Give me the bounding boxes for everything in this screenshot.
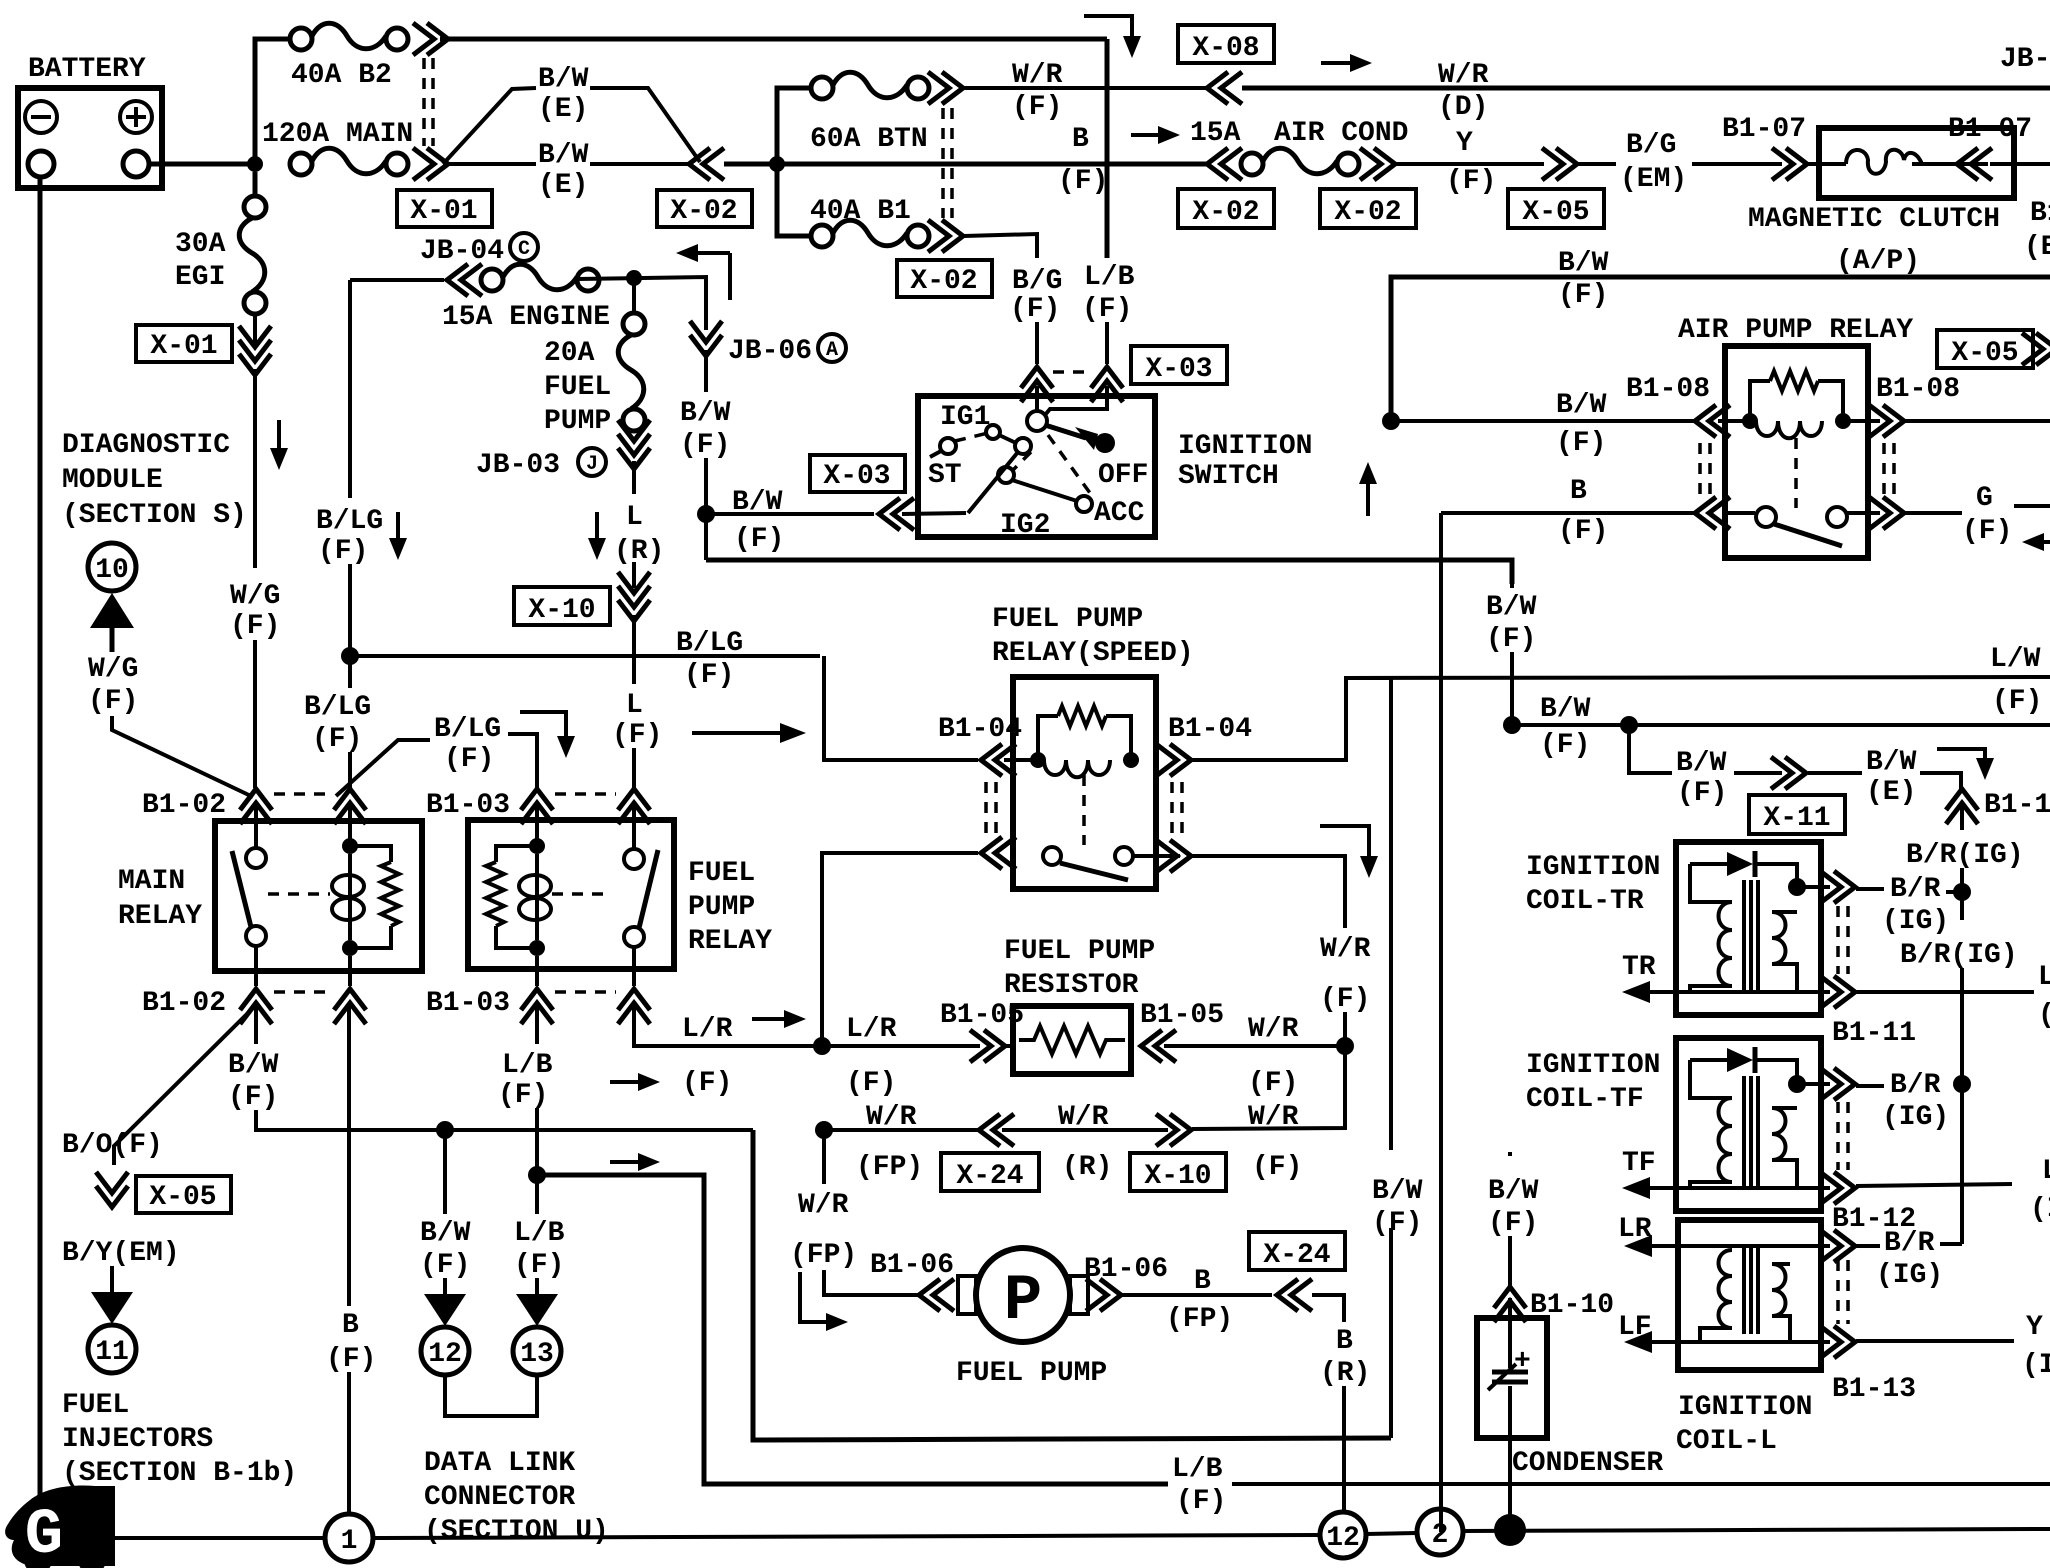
svg-text:Y: Y — [2026, 1312, 2043, 1343]
wire bus 2 to dot — [1463, 1529, 2050, 1531]
arrow corner down direction — [520, 712, 575, 758]
svg-text:B: B — [342, 1310, 359, 1341]
wire B/W corner to row — [256, 1110, 753, 1130]
connector chevron into clutch — [1772, 148, 1807, 180]
node B/W ignition feed — [697, 505, 715, 523]
svg-text:(E): (E) — [538, 170, 588, 201]
arrow return left — [676, 244, 730, 300]
svg-text:X-10: X-10 — [528, 595, 595, 626]
air pump relay dashed link — [1794, 438, 1798, 508]
svg-text:(F): (F) — [1962, 516, 2012, 547]
svg-text:B/W: B/W — [680, 398, 731, 429]
svg-text:B1-03: B1-03 — [426, 988, 510, 1019]
svg-text:B: B — [1194, 1266, 1211, 1297]
svg-text:1: 1 — [341, 1526, 358, 1557]
svg-text:L/B: L/B — [1172, 1454, 1223, 1485]
svg-text:FUEL: FUEL — [544, 372, 611, 403]
battery BAT1 — [18, 88, 162, 188]
connector X-05 chevron B/O — [96, 1172, 128, 1207]
svg-text:(B: (B — [2024, 232, 2050, 263]
svg-text:B1-02: B1-02 — [142, 988, 226, 1019]
arrow solid down to node 13 — [516, 1294, 558, 1326]
connector JB-06 chevron — [690, 321, 722, 356]
label X-02 box — [657, 190, 752, 227]
svg-text:L: L — [626, 502, 643, 533]
air pump relay switch — [1725, 507, 1880, 546]
wire L/W row — [1346, 677, 2050, 678]
wire B/G vertical — [1035, 252, 1039, 258]
svg-text:Y: Y — [1456, 128, 1473, 159]
fuel pump relay speed coil — [1004, 706, 1139, 777]
wire L/B drop arrow — [535, 1278, 539, 1294]
arrow right direction — [1321, 54, 1372, 72]
svg-text:PUMP: PUMP — [688, 892, 755, 923]
connector B1-14 chevron up — [1946, 789, 1978, 824]
wire coil out right — [1905, 419, 2050, 423]
label JB-03 J — [476, 448, 606, 481]
wire condenser vertical upper segment — [1508, 1152, 1512, 1156]
node 2 circle bottom — [1417, 1509, 1463, 1555]
svg-text:(E): (E) — [1866, 777, 1916, 808]
fuel pump relay speed switch — [1043, 847, 1180, 880]
wire L/B into switch — [1045, 386, 1107, 415]
wire bus under switch — [706, 560, 1512, 584]
arrow right direction bus1 — [610, 1073, 660, 1091]
node 12 circle data link — [421, 1327, 469, 1375]
connector chevron LR — [1820, 1230, 1855, 1262]
transformer TR — [1690, 864, 1797, 992]
wire speed switch to W/R corner — [1192, 856, 1345, 928]
wire junction down to 40A B1 — [777, 164, 812, 236]
svg-text:A: A — [826, 339, 838, 362]
connector X-03 dashes — [1053, 370, 1092, 374]
svg-text:(I: (I — [2030, 1194, 2050, 1225]
wire W/R node down to row corner — [1192, 1046, 1345, 1129]
fuse 20A FUEL PUMP — [618, 278, 645, 431]
wire 40A B2 to top bus — [440, 37, 1107, 42]
wire B/W vertical down — [704, 350, 708, 392]
wire condenser vertical to chevron — [1508, 1236, 1512, 1290]
wire B R vertical to node 12 — [1342, 1386, 1346, 1511]
svg-text:B/W: B/W — [228, 1050, 279, 1081]
main relay box — [215, 821, 422, 971]
wire into clutch box — [1808, 162, 1846, 166]
wire TR B/R out — [1797, 885, 1830, 889]
wire B R corner down — [1312, 1295, 1344, 1322]
svg-text:X-02: X-02 — [910, 266, 977, 297]
wire fuse to corner — [578, 277, 706, 330]
fuse 15A ENGINE — [481, 264, 599, 291]
connector chevron 60A out — [928, 72, 963, 104]
svg-text:B1-13: B1-13 — [1832, 1374, 1916, 1405]
node TR diode out — [1788, 878, 1806, 896]
svg-text:B1-03: B1-03 — [426, 790, 510, 821]
svg-text:EGI: EGI — [175, 262, 225, 293]
svg-text:W/G: W/G — [88, 654, 138, 685]
wire B1 to B/G corner — [964, 234, 1037, 252]
svg-text:B/LG: B/LG — [676, 628, 743, 659]
svg-text:MAGNETIC CLUTCH: MAGNETIC CLUTCH — [1748, 204, 2000, 235]
wire W/R FP corner to pump — [824, 1270, 918, 1295]
wire B/W drop arrow — [443, 1278, 447, 1294]
svg-text:IG2: IG2 — [1000, 510, 1050, 541]
air pump relay coil — [1718, 371, 1880, 438]
wire B/G to connector — [1035, 322, 1039, 364]
wire node up to 40A B2 fuse — [255, 39, 291, 164]
arrow right to 15A — [1131, 126, 1180, 144]
svg-text:(F): (F) — [1677, 778, 1727, 809]
wire top bus corner down L/B feed — [1105, 39, 1110, 258]
svg-text:B/W: B/W — [1556, 390, 1607, 421]
connector chevron 15A out — [1360, 148, 1395, 180]
svg-text:(F): (F) — [1558, 280, 1608, 311]
svg-text:120A MAIN: 120A MAIN — [262, 119, 413, 150]
svg-text:B1-08: B1-08 — [1876, 374, 1960, 405]
svg-text:X-01: X-01 — [410, 196, 477, 227]
connector chevron pump left — [919, 1279, 954, 1311]
svg-text:RELAY: RELAY — [688, 926, 772, 957]
wire L down — [632, 461, 636, 494]
node L/R junction — [813, 1037, 831, 1055]
air pump relay box — [1725, 346, 1868, 558]
svg-text:DIAGNOSTIC: DIAGNOSTIC — [62, 430, 230, 461]
connector X-08 chevron — [1207, 72, 1242, 104]
connector chevron TR trigger — [1820, 976, 1855, 1008]
connector chevron coil left — [1695, 405, 1730, 437]
svg-text:B/W: B/W — [1866, 747, 1917, 778]
wire B/W (F) top corner — [1391, 277, 2050, 421]
svg-text:(IG): (IG) — [1876, 1260, 1943, 1291]
fuse 120A MAIN — [290, 148, 408, 175]
connector X-02 chevron — [689, 148, 724, 180]
connector B1-03 upper chevrons — [521, 789, 553, 824]
svg-text:B/W: B/W — [538, 64, 589, 95]
wire LR to B/R label — [1856, 1244, 1880, 1248]
svg-text:JB-04: JB-04 — [420, 236, 504, 267]
main relay dashed link — [268, 892, 330, 896]
svg-text:12: 12 — [428, 1339, 462, 1370]
wire L/R up to relay speed switch — [822, 853, 978, 1046]
wire TF trigger right — [1856, 1184, 2012, 1186]
svg-text:B1-1: B1-1 — [1984, 790, 2050, 821]
svg-text:(SECTION S): (SECTION S) — [62, 500, 247, 531]
svg-text:G: G — [1976, 483, 1993, 514]
wire EGI down to W/G label — [253, 369, 257, 568]
wire B/LG tap diagonal — [336, 740, 430, 796]
svg-text:CONDENSER: CONDENSER — [1512, 1448, 1663, 1479]
svg-text:B/W: B/W — [732, 487, 783, 518]
svg-text:X-02: X-02 — [670, 196, 737, 227]
svg-text:B1-06: B1-06 — [870, 1250, 954, 1281]
arrow solid down to node 12 — [424, 1294, 466, 1326]
wire bus between 12 and 2 — [1366, 1533, 1416, 1534]
node L/B branch — [528, 1166, 546, 1184]
svg-text:(F): (F) — [1556, 428, 1606, 459]
svg-text:IG1: IG1 — [940, 402, 990, 433]
svg-text:(SECTION U): (SECTION U) — [424, 1516, 609, 1547]
svg-text:(F): (F) — [682, 1068, 732, 1099]
svg-text:B/LG: B/LG — [316, 506, 383, 537]
svg-text:B1-04: B1-04 — [938, 714, 1022, 745]
svg-text:B1: B1 — [2030, 198, 2050, 229]
node W/R junction — [1336, 1037, 1354, 1055]
svg-text:15A AIR COND: 15A AIR COND — [1190, 118, 1408, 149]
wire stubs into main relay — [254, 806, 258, 848]
arrow right direction bus2 — [610, 1153, 660, 1171]
svg-text:IGNITION: IGNITION — [1526, 1050, 1660, 1081]
connector X-03 chevron B/W — [879, 498, 914, 530]
svg-text:W/R: W/R — [1320, 934, 1371, 965]
wire B/W to chevron — [1734, 771, 1782, 775]
fuse 60A BTN — [811, 72, 929, 99]
label X-01 box — [397, 190, 492, 227]
svg-text:10: 10 — [95, 555, 129, 586]
wire FP relay outputs — [535, 956, 539, 986]
svg-text:(SECTION B-1b): (SECTION B-1b) — [62, 1458, 297, 1489]
svg-text:B1-04: B1-04 — [1168, 714, 1252, 745]
node 10 circle — [88, 543, 136, 591]
wire B/R label to node — [1946, 890, 1962, 894]
svg-text:JB-06: JB-06 — [728, 336, 812, 367]
svg-text:(FP): (FP) — [856, 1152, 923, 1183]
wire B/R IG vertical mid — [1960, 968, 1964, 1084]
connector JB-03 chevron — [618, 420, 650, 469]
wire B/W from main relay down — [254, 1006, 258, 1044]
wire W/G down to B1-02 — [253, 640, 257, 788]
label X-03 box left — [810, 455, 905, 492]
wire LF to right — [1856, 1339, 2014, 1343]
label X-01 box 2 — [136, 325, 232, 362]
wire W/G diagonal to B1-02 — [112, 716, 253, 797]
svg-text:L: L — [626, 690, 643, 721]
wire W/R to W/R(D) label — [1242, 86, 2050, 91]
svg-text:(F): (F) — [228, 1082, 278, 1113]
svg-text:(F): (F) — [1320, 984, 1370, 1015]
svg-text:(R): (R) — [614, 536, 664, 567]
svg-text:(FP): (FP) — [790, 1240, 857, 1271]
svg-text:TR: TR — [1622, 952, 1656, 983]
node 13 circle data link — [513, 1327, 561, 1375]
svg-text:MODULE: MODULE — [62, 465, 163, 496]
fuel pump relay speed box — [1013, 677, 1156, 889]
connector chevron resistor right — [1141, 1030, 1176, 1062]
svg-text:L/R: L/R — [682, 1014, 733, 1045]
transformer TF — [1690, 1060, 1797, 1188]
node W/R FP tap — [815, 1121, 833, 1139]
svg-text:B/W: B/W — [1558, 248, 1609, 279]
connector chevron switch right — [1869, 497, 1904, 529]
node battery junction — [247, 156, 263, 172]
svg-text:W/R: W/R — [1248, 1102, 1299, 1133]
svg-text:(F): (F) — [846, 1068, 896, 1099]
wire L/B feed to connector — [1105, 322, 1109, 364]
diode TF — [1690, 1047, 1797, 1076]
label X-24 box row — [941, 1153, 1039, 1192]
svg-text:(I: (I — [2038, 1000, 2050, 1031]
wire LR row — [1636, 1244, 1830, 1248]
diode TR — [1690, 851, 1797, 880]
svg-text:(F): (F) — [1248, 1068, 1298, 1099]
transformer L — [1700, 1244, 1790, 1341]
connector B1-03 lower chevrons — [521, 989, 553, 1024]
arrow LF output — [1624, 1331, 1652, 1353]
svg-text:B/O(F): B/O(F) — [62, 1130, 163, 1161]
connector chevron B/W E — [1771, 757, 1806, 789]
arrow right direction L/R — [752, 1010, 806, 1028]
connector X-10 chevron W/R row — [1156, 1114, 1191, 1146]
svg-text:B/W: B/W — [1488, 1176, 1539, 1207]
svg-text:(F): (F) — [88, 686, 138, 717]
wire B/W condenser vertical upper — [1510, 584, 1514, 588]
connector dashes TF — [1836, 1102, 1840, 1170]
svg-text:(F): (F) — [318, 536, 368, 567]
connector X-03 chevron L/B — [1091, 367, 1123, 402]
svg-text:(F): (F) — [514, 1250, 564, 1281]
wire lower B/W(E) row — [443, 162, 536, 166]
label X-05 box left — [136, 1176, 231, 1213]
svg-text:X-03: X-03 — [823, 461, 890, 492]
connector chevron clutch right — [1957, 148, 1992, 180]
connector X-02 dashed line mid — [941, 108, 945, 218]
arrow TR output — [1622, 981, 1650, 1003]
svg-text:(F): (F) — [1372, 1208, 1422, 1239]
wire B/W bus row — [1512, 723, 2050, 727]
svg-text:CONNECTOR: CONNECTOR — [424, 1482, 575, 1513]
svg-text:P: P — [1004, 1266, 1042, 1338]
connector chevron switch left — [1695, 497, 1730, 529]
arrow LR output — [1624, 1235, 1652, 1257]
svg-text:B: B — [1570, 476, 1587, 507]
wire TF trigger row — [1634, 1186, 1830, 1190]
svg-text:B/W: B/W — [1676, 748, 1727, 779]
svg-text:FUEL: FUEL — [62, 1390, 129, 1421]
connector X-01 chevron on 40A wire — [413, 23, 448, 55]
svg-text:30A: 30A — [175, 229, 226, 260]
svg-text:MAIN: MAIN — [118, 866, 185, 897]
wire L/R below relay — [634, 1006, 822, 1046]
wire chevron to B/R label — [1856, 887, 1884, 891]
wire bottom bus mid — [373, 1535, 1318, 1538]
svg-text:(FP): (FP) — [1166, 1304, 1233, 1335]
arrow left at right edge — [2022, 533, 2050, 551]
wire clutch to right edge — [1990, 162, 2050, 166]
wire B/W loop down right — [753, 1130, 1391, 1440]
svg-text:L: L — [2038, 962, 2050, 993]
wire L/B below relay — [535, 1006, 539, 1044]
svg-text:C: C — [518, 238, 530, 261]
wire B/LG row to relay speed — [824, 656, 978, 760]
connector chevron TR out — [1820, 871, 1855, 903]
svg-text:X-24: X-24 — [1263, 1240, 1330, 1271]
connector X-24 chevron W/R row — [979, 1114, 1014, 1146]
arrow corner right direction — [800, 1272, 848, 1331]
label X-08 box — [1178, 25, 1274, 64]
svg-text:W/G: W/G — [230, 581, 280, 612]
wire battery plus to node — [149, 162, 248, 167]
svg-text:B/W: B/W — [420, 1218, 471, 1249]
svg-text:B: B — [1336, 1326, 1353, 1357]
svg-text:X-03: X-03 — [1145, 354, 1212, 385]
connector chevron 15A ENGINE — [447, 264, 482, 296]
connector X-01 chevrons on EGI wire — [253, 314, 257, 345]
main relay switch — [232, 848, 266, 946]
svg-text:40A B2: 40A B2 — [291, 60, 392, 91]
svg-text:COIL-TF: COIL-TF — [1526, 1084, 1644, 1115]
svg-text:B1-07: B1-07 — [1722, 114, 1806, 145]
ignition coil TF box — [1676, 1038, 1821, 1211]
svg-text:X-08: X-08 — [1192, 33, 1259, 64]
fuse 40A B2 — [290, 23, 408, 50]
wire W/R row mid — [1002, 1128, 1168, 1132]
node B/W bus tap — [1503, 716, 1521, 734]
connector X-01 dashed line — [422, 58, 426, 146]
arrow solid down to node 11 — [91, 1292, 133, 1324]
svg-text:B/W: B/W — [1372, 1176, 1423, 1207]
wire node to label — [824, 1128, 978, 1132]
arrow corner down direction W/R — [1320, 826, 1378, 878]
svg-text:(F): (F) — [444, 744, 494, 775]
svg-text:FUEL PUMP: FUEL PUMP — [1004, 936, 1155, 967]
node 12 circle bottom — [1320, 1512, 1366, 1558]
svg-text:DATA LINK: DATA LINK — [424, 1448, 575, 1479]
svg-text:B/R: B/R — [1884, 1228, 1935, 1259]
svg-text:(F): (F) — [1082, 294, 1132, 325]
svg-text:B: B — [1072, 124, 1089, 155]
svg-text:W/R: W/R — [1248, 1014, 1299, 1045]
wire B/R IG vertical top — [1960, 806, 1964, 830]
svg-text:B1-08: B1-08 — [1626, 374, 1710, 405]
connector chevron resistor left — [970, 1030, 1005, 1062]
wire resistor to W/R label — [1164, 1044, 1345, 1048]
svg-text:SWITCH: SWITCH — [1178, 461, 1279, 492]
wire condenser to ground bus — [1508, 1438, 1512, 1530]
svg-text:B/R: B/R — [1890, 1070, 1941, 1101]
fuel pump relay box — [468, 820, 674, 969]
wire L/B branch right and down — [537, 1175, 1168, 1484]
wire speed coil to B/W vertical — [1192, 678, 1391, 760]
ground symbol G car — [5, 1486, 115, 1568]
connector chevron speed switch left — [981, 837, 1016, 869]
connector chevron TF trigger — [1820, 1172, 1855, 1204]
wire B/LG lower to B1-02 — [348, 752, 352, 790]
svg-text:(F): (F) — [1488, 1208, 1538, 1239]
wire G to right edge — [2014, 504, 2050, 508]
connector chevron pump right — [1086, 1279, 1121, 1311]
connector chevron coil right — [1869, 405, 1904, 437]
wire B/R LR corner up — [1940, 1242, 1962, 1246]
node fuse branch junction — [769, 156, 785, 172]
connector B1-02 upper chevrons — [240, 789, 272, 824]
svg-text:B/W: B/W — [538, 140, 589, 171]
svg-text:W/R: W/R — [1012, 60, 1063, 91]
connector dashed pairs relay speed — [984, 782, 988, 836]
node B/W branch right — [1620, 716, 1638, 734]
ignition coil TR box — [1676, 842, 1821, 1015]
node 20A tap — [626, 270, 642, 286]
label JB-06 A — [728, 334, 846, 367]
arrow up direction — [1359, 462, 1377, 516]
svg-text:INJECTORS: INJECTORS — [62, 1424, 213, 1455]
svg-text:(E): (E) — [538, 94, 588, 125]
wire data link bracket — [445, 1377, 537, 1416]
fuel pump resistor box — [1013, 1006, 1131, 1074]
svg-text:20A: 20A — [544, 338, 595, 369]
wire B/LG to node — [348, 564, 352, 688]
connector chevron speed switch right — [1156, 840, 1191, 872]
wire B/LG top corner to 15A ENGINE — [350, 278, 444, 282]
wire W/R FP down — [822, 1130, 826, 1184]
fuel pump relay switch — [624, 849, 658, 947]
